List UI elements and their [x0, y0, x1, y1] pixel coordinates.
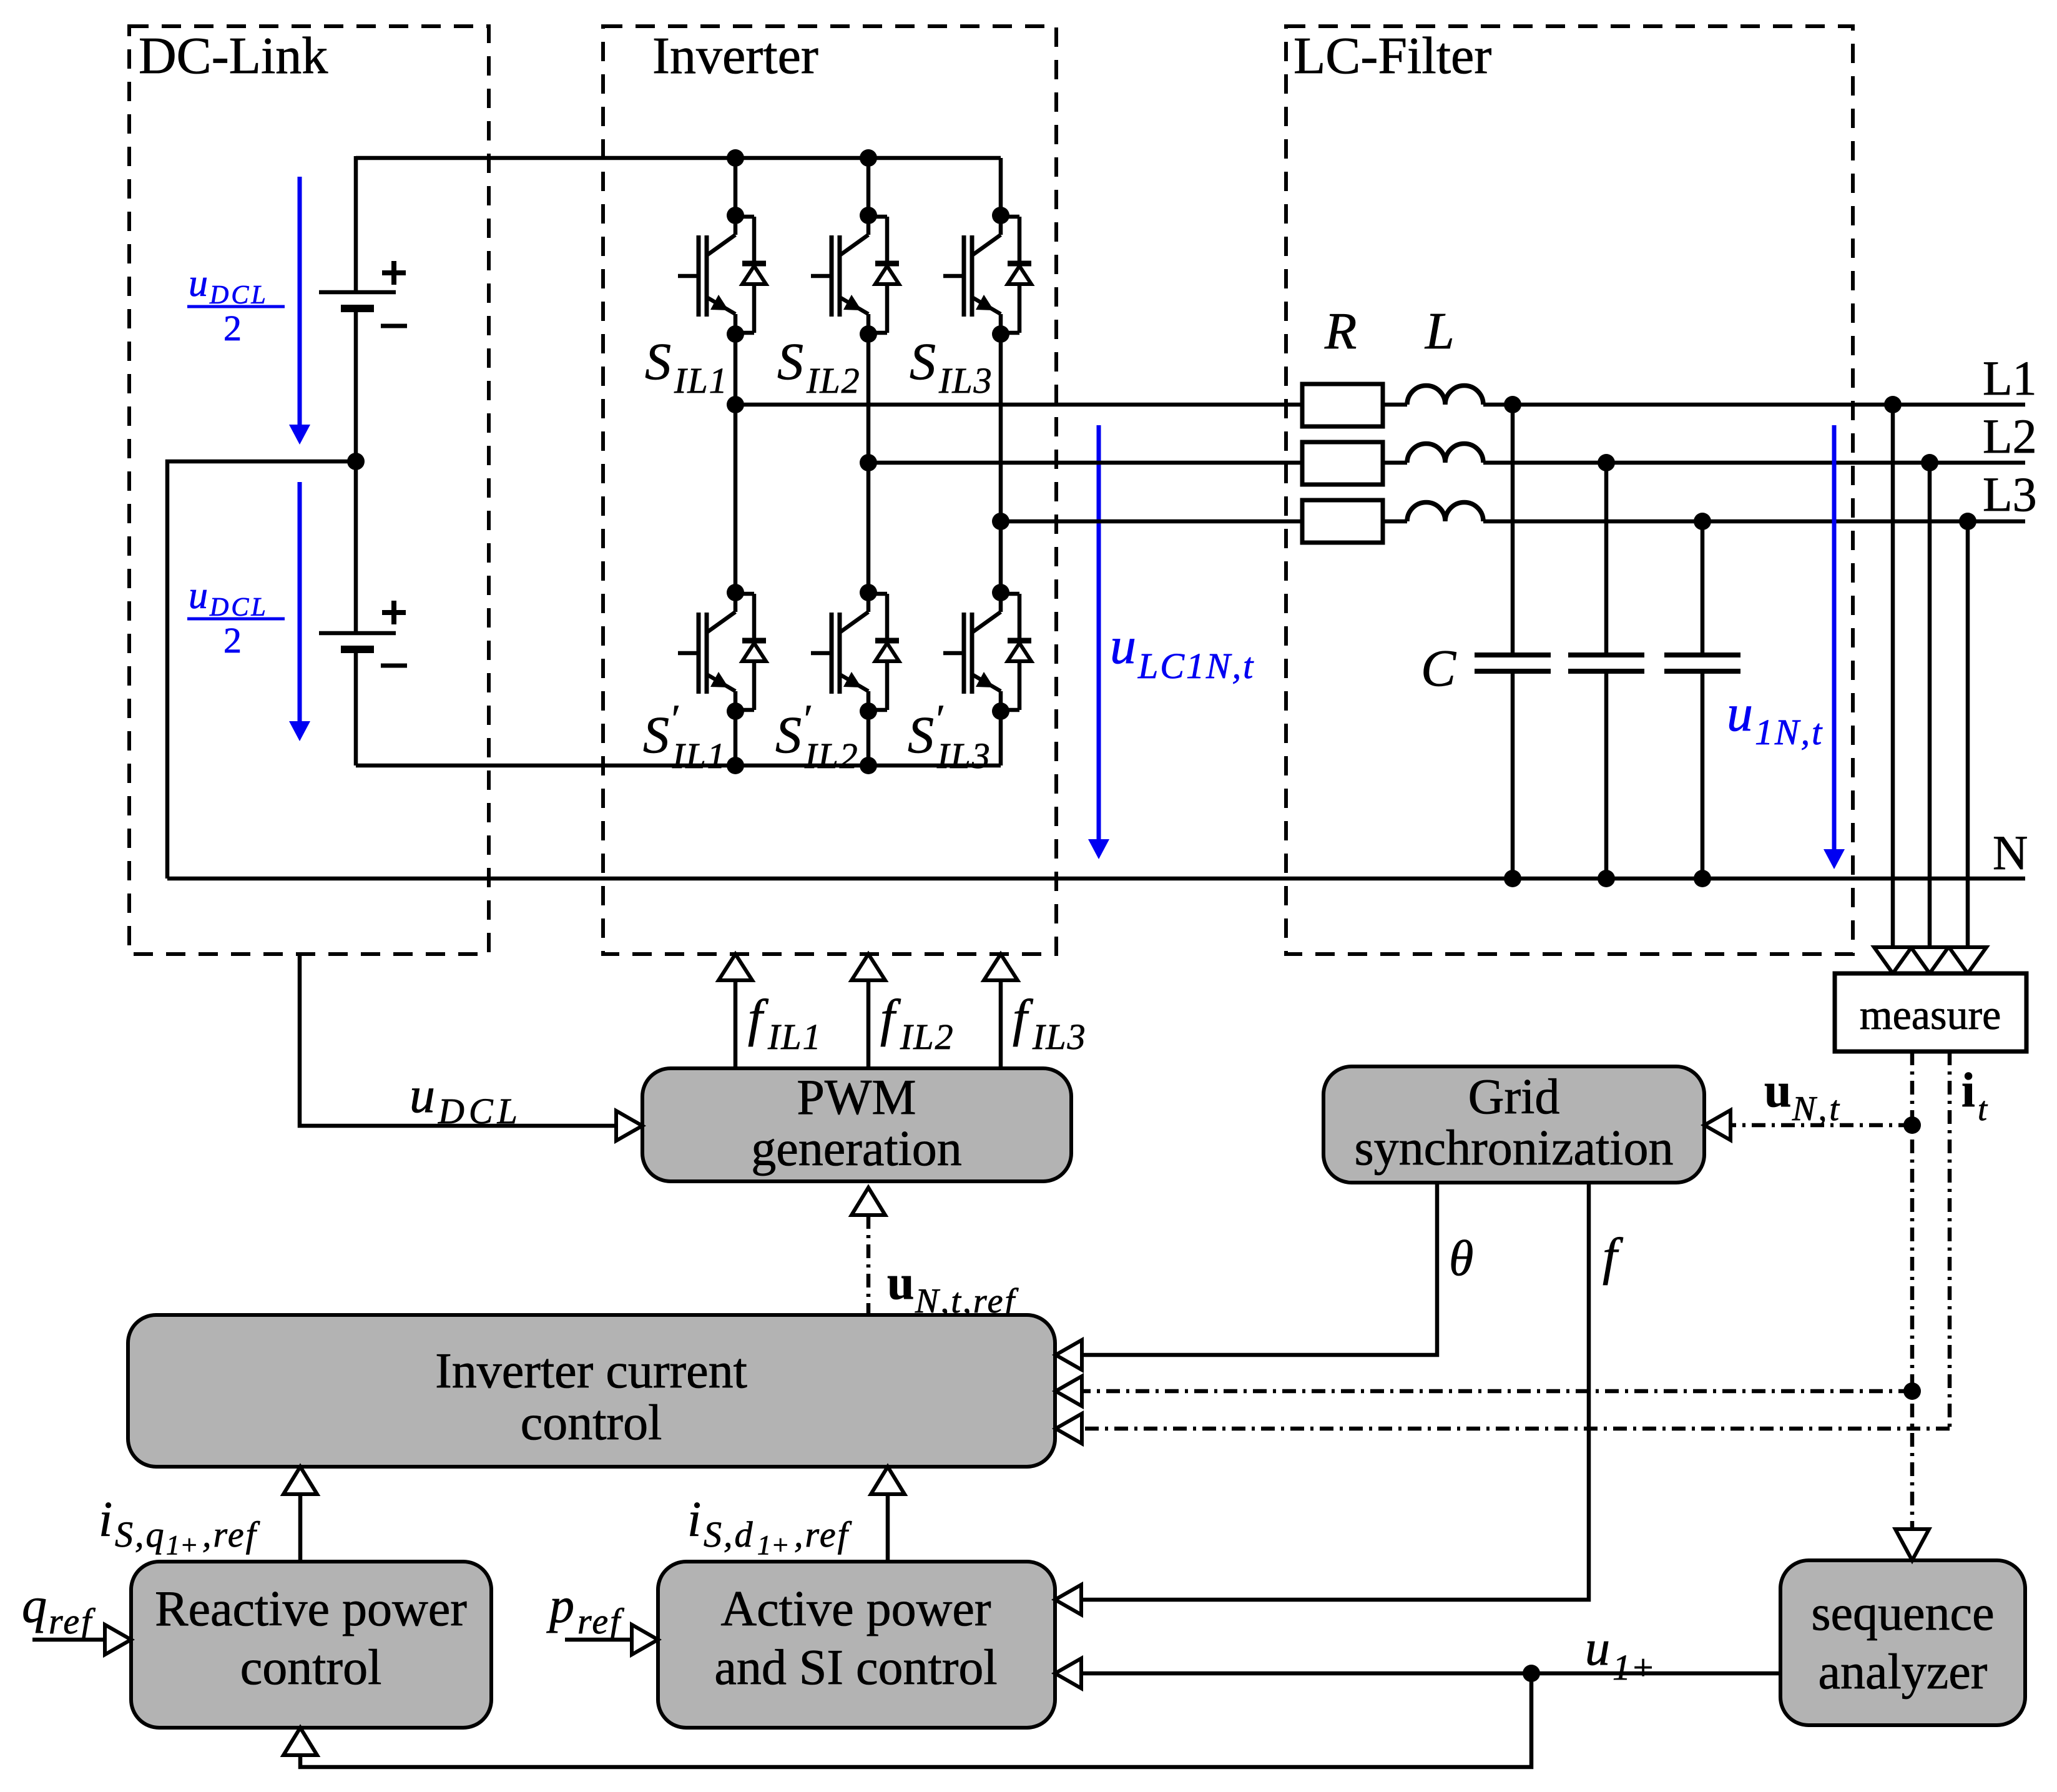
svg-text:control: control: [521, 1396, 662, 1450]
inductor L (phase L1): [1407, 386, 1483, 405]
svg-text:IL2: IL2: [806, 360, 861, 401]
svg-text:i: i: [99, 1492, 112, 1547]
label i_S,d1+,ref: [687, 1492, 852, 1560]
node u_N,t junction control: [1903, 1382, 1921, 1400]
wire f_IL1: [734, 980, 738, 1068]
node L3 measure tap: [1959, 513, 1976, 530]
svg-text:u: u: [189, 262, 208, 305]
wire u_N,t dash-dot horizontal to control: [1083, 1389, 1912, 1394]
wire u_N,t dash-dot vertical: [1910, 1051, 1915, 1529]
svg-text:L1: L1: [1983, 351, 2037, 405]
wire phase L3 right with inductor: [1381, 519, 1407, 524]
node DC midpoint: [347, 453, 365, 470]
wire leg3 vertical: [999, 158, 1003, 218]
svg-text:N,t: N,t: [1792, 1090, 1842, 1128]
node S_IL1 collector: [727, 207, 744, 224]
svg-text:L: L: [1425, 302, 1455, 360]
svg-text:generation: generation: [751, 1121, 962, 1176]
node S'_IL3 emitter: [992, 702, 1009, 720]
svg-text:IL3: IL3: [938, 360, 993, 401]
svg-text:1+: 1+: [166, 1530, 199, 1560]
svg-text:S: S: [775, 706, 802, 764]
arrowhead f_IL2: [852, 954, 885, 980]
svg-text:IL1: IL1: [674, 360, 729, 401]
node S'_IL3 collector: [992, 584, 1009, 601]
node S_IL2 collector: [860, 207, 877, 224]
dashed box DC-Link: [129, 26, 489, 954]
label f_IL2: [880, 989, 955, 1057]
label S'_IL1: [643, 696, 727, 776]
node phase3 tap: [992, 513, 1009, 530]
node S_IL3 collector: [992, 207, 1009, 224]
svg-text:′: ′: [936, 696, 945, 741]
label u_LC1N,t (blue): [1110, 617, 1255, 686]
node bus leg1: [727, 149, 744, 167]
label u_DCL/2 upper (blue): [189, 262, 268, 348]
svg-text:S,d: S,d: [704, 1514, 755, 1555]
transistor S_IL2: [811, 217, 899, 333]
label i_t: [1961, 1063, 1988, 1128]
label S'_IL2: [775, 696, 859, 776]
transistor S_IL1: [678, 217, 766, 333]
wire phase L1 right with inductor: [1381, 403, 1407, 407]
svg-text:PWM: PWM: [797, 1070, 916, 1125]
node S'_IL1 collector: [727, 584, 744, 601]
battery B2 minus sign: [381, 664, 407, 668]
node S'_IL2 collector: [860, 584, 877, 601]
label q_ref: [22, 1578, 96, 1642]
wire u_N,t dash-dot to grid sync: [1732, 1123, 1912, 1128]
svg-text:Inverter current: Inverter current: [435, 1344, 747, 1399]
label S_IL2: [777, 333, 861, 401]
wire battery column bottom: [354, 653, 358, 766]
svg-text:S: S: [910, 333, 936, 391]
svg-text:q: q: [22, 1578, 47, 1633]
wire i_t dash-dot horizontal: [1083, 1427, 1950, 1431]
block Reactive power control: [131, 1562, 491, 1728]
resistor R (phase L2): [1302, 442, 1383, 485]
arrowhead u_N,t,ref into PWM: [852, 1188, 885, 1215]
svg-text:S: S: [777, 333, 803, 391]
svg-text:control: control: [240, 1640, 382, 1695]
block Inverter current control: [128, 1315, 1055, 1467]
svg-text:S: S: [908, 706, 934, 764]
label u_N,t: [1764, 1063, 1842, 1128]
svg-text:2: 2: [223, 620, 242, 661]
arrowhead i_S,d1+,ref into ICC: [871, 1467, 905, 1494]
svg-text:IL1: IL1: [672, 736, 727, 776]
capacitor C1 wires: [1511, 405, 1515, 879]
wire DC+ bus top: [356, 156, 1001, 160]
svg-text:,ref: ,ref: [202, 1514, 260, 1555]
transistor S_IL3: [943, 217, 1031, 333]
arrowhead into measure 2: [1911, 947, 1948, 973]
arrowhead u_N,t into grid sync: [1704, 1110, 1731, 1140]
battery B1 top (u_DCL/2): [319, 290, 396, 295]
arrowhead i_t into ICC: [1056, 1414, 1082, 1444]
node bus leg2: [860, 149, 877, 167]
svg-text:and SI control: and SI control: [714, 1640, 997, 1695]
svg-text:DCL: DCL: [438, 1091, 522, 1131]
node C1 top: [1504, 396, 1521, 413]
wire u_DCL sense: [300, 954, 616, 1126]
inductor L (phase L3): [1407, 503, 1483, 522]
wire u_1+ feedback: [300, 1673, 1531, 1767]
arrowhead u_DCL into PWM: [616, 1111, 642, 1141]
svg-text:u: u: [410, 1066, 435, 1123]
transistor S'_IL2: [811, 594, 899, 710]
battery B2 bottom (u_DCL/2): [319, 631, 396, 636]
block sequence analyzer: [1780, 1560, 2025, 1725]
node u_N,t junction grid sync: [1903, 1116, 1921, 1134]
wire leg1 vertical: [734, 158, 738, 218]
battery B1 minus sign: [381, 324, 407, 328]
node L1 measure tap: [1884, 396, 1902, 413]
svg-text:1N,t: 1N,t: [1755, 712, 1824, 752]
svg-text:ref: ref: [577, 1601, 624, 1642]
arrow u_DCL/2 lower (blue): [289, 482, 310, 741]
arrowhead f_IL3: [984, 954, 1018, 980]
wire theta: [1083, 1183, 1437, 1355]
svg-text:S,q: S,q: [115, 1514, 166, 1555]
dashed box LC-Filter: [1286, 26, 1853, 954]
svg-text:S: S: [643, 706, 669, 764]
wire N line: [167, 877, 2025, 881]
svg-text:DC-Link: DC-Link: [139, 27, 328, 85]
wire f_IL3: [999, 980, 1003, 1068]
arrowhead u_N,t into sequence analyzer: [1895, 1529, 1929, 1560]
label p_ref: [546, 1578, 624, 1642]
label S_IL3: [910, 333, 993, 401]
svg-text:u: u: [1585, 1621, 1610, 1676]
wire f_IL2: [866, 980, 871, 1068]
label u_N,t,ref: [887, 1255, 1019, 1321]
node S'_IL1 emitter: [727, 702, 744, 720]
arrowhead into measure 3: [1949, 947, 1986, 973]
node phase2 tap: [860, 454, 877, 471]
svg-text:u: u: [887, 1255, 914, 1309]
svg-text:i: i: [687, 1492, 701, 1547]
wire L3 to measure: [1966, 521, 1970, 947]
svg-text:2: 2: [223, 308, 242, 348]
block Active power and SI control: [658, 1562, 1055, 1728]
arrowhead u_1+ into RPC bottom: [283, 1728, 317, 1755]
svg-text:sequence: sequence: [1811, 1586, 1994, 1641]
capacitor C2 wires: [1604, 463, 1609, 879]
svg-text:C: C: [1421, 639, 1456, 697]
arrowhead p_ref into AP: [632, 1625, 658, 1655]
node rail leg2: [860, 757, 877, 774]
wire L1 to measure: [1891, 405, 1895, 947]
svg-text:N: N: [1993, 825, 2028, 880]
capacitor C2 plates: [1568, 655, 1644, 671]
wire i_S,d1+,ref: [886, 1494, 890, 1562]
label u_1N,t (blue): [1727, 684, 1824, 752]
svg-text:1+: 1+: [1613, 1647, 1655, 1688]
svg-text:L3: L3: [1983, 467, 2037, 521]
label S'_IL3: [908, 696, 991, 776]
wire i_S,q1+,ref: [298, 1494, 303, 1562]
inductor L (phase L2): [1407, 443, 1483, 463]
node C1 bottom on N: [1504, 870, 1521, 887]
node phase1 tap: [727, 396, 744, 413]
wire DC midpoint to N: [167, 461, 356, 879]
svg-text:S: S: [645, 333, 671, 391]
wire DC- bus bottom rail: [356, 764, 1001, 768]
node C3 bottom on N: [1694, 870, 1711, 887]
svg-text:′: ′: [672, 696, 680, 741]
wire L2 to measure: [1928, 463, 1932, 947]
svg-text:ref: ref: [49, 1601, 96, 1642]
svg-text:u: u: [1110, 617, 1136, 675]
svg-text:i: i: [1961, 1063, 1975, 1117]
arrow u_DCL/2 upper (blue): [289, 177, 310, 445]
label f_IL3: [1013, 989, 1087, 1057]
transistor S'_IL3: [943, 594, 1031, 710]
wire phase L2 left: [868, 461, 1302, 465]
node S_IL3 emitter: [992, 325, 1009, 343]
arrow u_1N,t (blue): [1824, 425, 1845, 869]
svg-text:p: p: [546, 1578, 574, 1633]
svg-text:θ: θ: [1449, 1231, 1473, 1286]
wire phase L2 right with inductor: [1381, 461, 1407, 465]
svg-text:,ref: ,ref: [794, 1514, 852, 1555]
wire u_1+: [1083, 1671, 1780, 1676]
svg-text:measure: measure: [1860, 991, 2001, 1038]
node rail leg1: [727, 757, 744, 774]
svg-text:LC-Filter: LC-Filter: [1294, 27, 1491, 85]
wire phase L1 left: [735, 403, 1302, 407]
wire leg2 vertical: [866, 158, 871, 218]
svg-text:u: u: [1764, 1063, 1791, 1117]
node C3 top: [1694, 513, 1711, 530]
block measure: [1835, 973, 2026, 1051]
svg-text:LC1N,t: LC1N,t: [1137, 646, 1255, 686]
svg-text:IL3: IL3: [936, 736, 991, 776]
resistor R (phase L3): [1302, 500, 1383, 543]
transistor S'_IL1: [678, 594, 766, 710]
capacitor C3 plates: [1664, 655, 1740, 671]
node L2 measure tap: [1921, 454, 1938, 471]
node u_1+ junction: [1523, 1665, 1540, 1682]
svg-text:IL1: IL1: [767, 1017, 822, 1057]
svg-text:Reactive power: Reactive power: [155, 1582, 467, 1637]
svg-text:Grid: Grid: [1468, 1070, 1560, 1125]
svg-text:IL3: IL3: [1032, 1017, 1087, 1057]
svg-text:u: u: [1727, 684, 1753, 742]
arrow u_LC1N,t (blue): [1088, 425, 1109, 859]
resistor R (phase L1): [1302, 384, 1383, 426]
svg-text:analyzer: analyzer: [1819, 1645, 1988, 1700]
arrowhead u_1+ into AP: [1055, 1658, 1081, 1688]
arrowhead f into AP: [1055, 1585, 1081, 1615]
arrowhead q_ref into RPC: [105, 1625, 131, 1655]
wire u_N,t,ref dash-dot: [866, 1215, 871, 1315]
svg-text:R: R: [1324, 302, 1357, 360]
svg-text:Inverter: Inverter: [652, 27, 818, 85]
svg-text:′: ′: [804, 696, 813, 741]
wire phase L3 left: [1001, 519, 1302, 524]
svg-text:Active power: Active power: [720, 1582, 991, 1637]
arrowhead theta into ICC: [1056, 1340, 1082, 1370]
wire between battery plates: [354, 312, 358, 631]
block Grid synchronization: [1323, 1066, 1704, 1183]
node S'_IL2 emitter: [860, 702, 877, 720]
dashed box Inverter: [603, 26, 1056, 954]
svg-text:t: t: [1978, 1090, 1988, 1128]
battery B1 plus sign: [382, 261, 406, 285]
svg-text:IL2: IL2: [804, 736, 859, 776]
label u_DCL/2 lower (blue): [189, 574, 268, 661]
svg-text:synchronization: synchronization: [1355, 1121, 1674, 1176]
svg-text:L2: L2: [1983, 409, 2037, 463]
node S_IL1 emitter: [727, 325, 744, 343]
arrowhead into measure 1: [1874, 947, 1912, 973]
wire f: [1083, 1183, 1589, 1600]
wire q_ref: [32, 1638, 104, 1642]
arrowhead f_IL1: [719, 954, 752, 980]
label f_IL1: [748, 989, 822, 1057]
node C2 top: [1598, 454, 1615, 471]
wire i_t dash-dot vertical: [1948, 1051, 1952, 1429]
label u_DCL: [410, 1066, 522, 1131]
label S_IL1: [645, 333, 729, 401]
svg-text:IL2: IL2: [900, 1017, 955, 1057]
node C2 bottom on N: [1598, 870, 1615, 887]
svg-text:u: u: [189, 574, 208, 617]
label i_S,q1+,ref: [99, 1492, 260, 1560]
block PWM generation: [642, 1068, 1071, 1181]
capacitor C1 plates: [1475, 655, 1551, 671]
arrowhead i_S,q1+,ref into ICC: [283, 1467, 317, 1494]
label u_1+: [1585, 1621, 1655, 1688]
node S_IL2 emitter: [860, 325, 877, 343]
wire battery column top: [354, 156, 358, 290]
arrowhead u_N,t into ICC: [1056, 1376, 1082, 1406]
battery B2 plus sign: [382, 601, 406, 624]
wire p_ref: [565, 1638, 631, 1642]
capacitor C3 wires: [1701, 521, 1705, 879]
svg-text:1+: 1+: [757, 1530, 790, 1560]
